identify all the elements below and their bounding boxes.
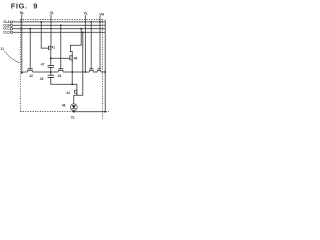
svg-text:CLD: CLD — [3, 30, 10, 34]
transistor 42 — [27, 69, 33, 72]
bus line CLA — [13, 21, 106, 23]
svg-text:DL: DL — [20, 11, 25, 15]
transistor 48 — [70, 54, 72, 62]
bus line CLC — [13, 28, 106, 30]
svg-text:VL: VL — [84, 12, 88, 16]
power rail right — [104, 20, 106, 112]
terminal circle CLB — [10, 24, 12, 26]
wire 48 source down through N1 to N2 — [71, 62, 73, 84]
dashed pixel box 11 — [20, 20, 109, 120]
capacitor 45 — [48, 75, 55, 77]
wire source 44 to OLED — [74, 95, 77, 104]
bus line CLB — [13, 24, 106, 26]
transistor B (gate from VH) — [97, 69, 101, 72]
svg-text:42: 42 — [29, 74, 33, 78]
node line N1 — [22, 71, 28, 73]
wire gate 43 from CLB — [60, 25, 62, 69]
svg-text:48: 48 — [74, 56, 78, 60]
terminal circle CLC — [10, 28, 12, 30]
wire VL2 vertical — [84, 15, 86, 72]
junction dots — [21, 21, 106, 113]
node line N2 — [51, 77, 77, 88]
OLED 46 — [70, 104, 77, 111]
terminal circle CLA — [10, 21, 12, 23]
svg-text:43: 43 — [58, 74, 62, 78]
wire drain 48 from CLC — [70, 29, 81, 54]
wire VH vertical gate of right transistor — [99, 16, 101, 69]
svg-text:44: 44 — [66, 91, 70, 95]
svg-text:45: 45 — [40, 77, 44, 81]
wire gate 42 from CLC — [29, 29, 31, 69]
cathode line CL — [74, 111, 105, 113]
transistor 41 — [49, 45, 51, 51]
wire VL / 41 / caps column — [50, 51, 52, 66]
svg-text:11: 11 — [0, 47, 4, 51]
svg-text:VL: VL — [50, 11, 54, 15]
bus line CLD — [13, 31, 106, 33]
terminal circle CLD — [10, 31, 12, 33]
wire gate 41 from CLA — [41, 22, 48, 48]
wire gate 48 from cap node — [51, 57, 70, 59]
leader line 11 — [4, 51, 19, 63]
transistor 44 — [75, 89, 77, 96]
transistor A (gate from CLA) — [89, 69, 94, 72]
transistor 43 — [58, 69, 63, 72]
wire VL vertical — [50, 14, 52, 45]
wire from CLD down to source of 44 — [77, 32, 83, 95]
svg-text:VH: VH — [99, 12, 104, 16]
wire DL vertical — [21, 14, 23, 73]
wire OLED cathode — [73, 111, 75, 112]
svg-text:CL: CL — [71, 115, 75, 119]
wire gate from CLA to left-right transistor — [90, 22, 92, 69]
svg-text:FIG.: FIG. — [11, 1, 28, 10]
svg-text:46: 46 — [62, 103, 66, 107]
svg-text:47: 47 — [41, 62, 45, 66]
svg-text:41: 41 — [52, 45, 56, 49]
capacitor 47 — [48, 65, 55, 67]
svg-text:9: 9 — [33, 1, 37, 10]
